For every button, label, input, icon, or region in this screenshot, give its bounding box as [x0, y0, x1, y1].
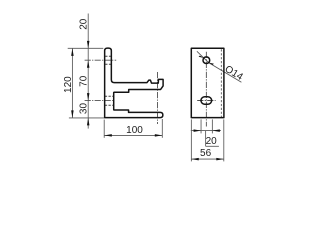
svg-text:70: 70	[79, 75, 90, 87]
svg-text:30: 30	[79, 103, 90, 115]
svg-text:120: 120	[63, 76, 74, 93]
svg-text:20: 20	[206, 136, 218, 147]
svg-text:100: 100	[126, 125, 143, 136]
svg-text:20: 20	[79, 18, 90, 30]
svg-text:56: 56	[200, 148, 212, 159]
